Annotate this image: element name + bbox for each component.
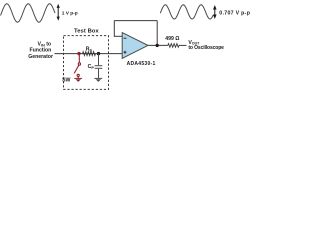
feedback wire loop	[114, 21, 157, 46]
ground (switch, red)	[74, 78, 82, 82]
op-amp U1 ADA4530-1	[122, 33, 148, 59]
output sine waveform	[160, 5, 213, 19]
switch SW (red)	[74, 54, 80, 79]
svg-text:SW: SW	[62, 78, 70, 84]
wire: feedback right vertical	[156, 21, 158, 46]
wire: to oscilloscope	[179, 44, 187, 46]
svg-text:Generator: Generator	[28, 54, 53, 60]
node: junction at switch (red)	[77, 52, 80, 55]
svg-text:499 Ω: 499 Ω	[165, 36, 179, 42]
wire: stub from node to switch	[78, 54, 80, 63]
svg-text:Function: Function	[29, 48, 51, 54]
wire: feedback left vertical	[113, 21, 115, 37]
input sine waveform	[1, 4, 56, 22]
svg-text:ADA4530-1: ADA4530-1	[127, 61, 156, 67]
node: junction at capacitor (black)	[97, 52, 100, 55]
resistor 499 ohm	[168, 44, 179, 48]
svg-text:VIN to: VIN to	[37, 42, 51, 48]
wire: op-amp output	[148, 44, 168, 46]
capacitor top plate	[95, 65, 103, 67]
capacitor CP	[95, 54, 103, 79]
switch top contact	[78, 63, 80, 65]
svg-text:to Oscilloscope: to Oscilloscope	[188, 45, 224, 51]
wire: Vin to op-amp + input	[55, 53, 123, 55]
wire: feedback top rail	[114, 20, 157, 22]
Test Box dashed enclosure	[64, 36, 109, 90]
op-amp minus input mark	[124, 37, 127, 39]
wire: node to capacitor	[98, 54, 100, 66]
capacitor bottom plate	[95, 67, 103, 69]
switch bottom contact	[77, 74, 79, 76]
Vin source label	[28, 42, 53, 60]
0.707V p-p measure arrow	[213, 5, 217, 19]
svg-text:0.707 V p-p: 0.707 V p-p	[219, 10, 250, 16]
1V p-p measure arrow	[57, 4, 60, 21]
wire: capacitor to ground	[98, 69, 100, 78]
svg-text:1 V p-p: 1 V p-p	[62, 10, 78, 16]
wire: inverting input stub	[114, 35, 122, 37]
resistor RS	[83, 52, 96, 56]
op-amp plus input mark	[124, 51, 127, 54]
switch arm	[74, 65, 79, 73]
wire: switch to ground	[77, 77, 79, 79]
node: output junction	[156, 44, 159, 47]
ground (capacitor, gray)	[94, 78, 102, 82]
svg-text:Test Box: Test Box	[74, 29, 100, 35]
